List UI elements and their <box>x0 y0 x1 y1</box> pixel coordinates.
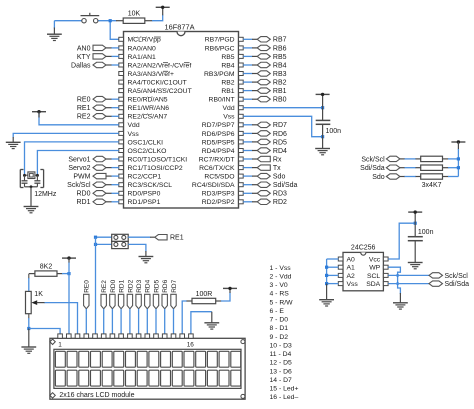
svg-text:AN0: AN0 <box>77 45 91 52</box>
svg-text:RC2/CCP1: RC2/CCP1 <box>128 174 162 181</box>
svg-text:10 - D3: 10 - D3 <box>270 343 293 350</box>
svg-text:RC4/SDI/SDA: RC4/SDI/SDA <box>192 182 235 189</box>
svg-text:RB2: RB2 <box>221 80 234 87</box>
svg-text:RB7/PGD: RB7/PGD <box>205 37 235 44</box>
svg-text:RD1: RD1 <box>76 199 90 206</box>
svg-text:RE1: RE1 <box>77 105 91 112</box>
svg-text:100n: 100n <box>326 128 342 135</box>
svg-text:13 - D6: 13 - D6 <box>270 368 293 375</box>
svg-text:Sck/Scl: Sck/Scl <box>67 182 91 189</box>
svg-text:RD3/PSP3: RD3/PSP3 <box>202 191 235 198</box>
svg-text:RA0/AN0: RA0/AN0 <box>128 45 157 52</box>
svg-text:Rx: Rx <box>273 156 282 163</box>
svg-text:RA4/T0CKI/C1OUT: RA4/T0CKI/C1OUT <box>128 80 187 87</box>
svg-text:RD1/PSP1: RD1/PSP1 <box>128 199 161 206</box>
svg-text:RD0: RD0 <box>76 191 90 198</box>
svg-text:8K2: 8K2 <box>40 264 53 271</box>
svg-text:RC0/T1OSO/T1CKI: RC0/T1OSO/T1CKI <box>128 156 188 163</box>
svg-text:RC6/TX/CK: RC6/TX/CK <box>199 165 235 172</box>
svg-text:RE0: RE0 <box>77 97 91 104</box>
svg-text:RC1/T1OSI/CCP2: RC1/T1OSI/CCP2 <box>128 165 183 172</box>
svg-text:A2: A2 <box>347 273 356 280</box>
svg-text:12 - D5: 12 - D5 <box>270 360 293 367</box>
svg-text:100R: 100R <box>196 291 213 298</box>
svg-text:RE2/CS/AN7: RE2/CS/AN7 <box>128 114 168 121</box>
svg-text:1: 1 <box>58 342 62 349</box>
svg-text:WP: WP <box>369 265 380 272</box>
svg-text:Sdi/Sda: Sdi/Sda <box>360 165 385 172</box>
svg-text:Sck/Scl: Sck/Scl <box>445 273 469 280</box>
svg-text:RE0: RE0 <box>84 280 91 293</box>
svg-text:RE1/WR/AN6: RE1/WR/AN6 <box>128 105 170 112</box>
svg-text:RE0/RD/AN5: RE0/RD/AN5 <box>128 97 168 104</box>
svg-text:Vdd: Vdd <box>128 122 140 129</box>
svg-text:RB5: RB5 <box>221 54 234 61</box>
svg-text:9 - D2: 9 - D2 <box>270 334 289 341</box>
svg-text:5 - R/W: 5 - R/W <box>270 299 294 306</box>
svg-text:RD6: RD6 <box>273 131 287 138</box>
svg-text:100n: 100n <box>418 229 434 236</box>
svg-text:RD0/PSP0: RD0/PSP0 <box>128 191 161 198</box>
svg-text:RD7: RD7 <box>273 122 287 129</box>
svg-text:RD4/PSP4: RD4/PSP4 <box>202 148 235 155</box>
svg-text:RA1/AN1: RA1/AN1 <box>128 54 157 61</box>
svg-text:RA2/AN2/Vref-/CVref: RA2/AN2/Vref-/CVref <box>128 62 192 69</box>
svg-text:RC7/RX/DT: RC7/RX/DT <box>199 156 235 163</box>
svg-text:RE2: RE2 <box>101 280 108 293</box>
svg-text:RB0/INT: RB0/INT <box>209 97 235 104</box>
svg-text:RD3: RD3 <box>136 279 143 292</box>
svg-text:Vcc: Vcc <box>369 256 381 263</box>
svg-text:RB1: RB1 <box>221 88 234 95</box>
svg-text:Sdo: Sdo <box>372 174 385 181</box>
svg-text:24C256: 24C256 <box>351 244 376 251</box>
svg-text:7 - D0: 7 - D0 <box>270 317 289 324</box>
svg-text:RD4: RD4 <box>145 279 152 292</box>
svg-text:SDA: SDA <box>366 281 380 288</box>
svg-text:RD6/PSP6: RD6/PSP6 <box>202 131 235 138</box>
svg-text:RC5/SDO: RC5/SDO <box>204 174 234 181</box>
svg-text:1K: 1K <box>34 291 43 298</box>
svg-text:2x16 chars LCD module: 2x16 chars LCD module <box>59 392 134 399</box>
svg-text:KTY: KTY <box>77 54 91 61</box>
svg-text:RD6: RD6 <box>162 279 169 292</box>
svg-text:10K: 10K <box>128 10 141 17</box>
svg-text:A1: A1 <box>347 265 356 272</box>
svg-text:RD7: RD7 <box>171 279 178 292</box>
svg-text:RB6: RB6 <box>273 45 287 52</box>
svg-text:Sck/Scl: Sck/Scl <box>361 156 385 163</box>
svg-text:RD5/PSP5: RD5/PSP5 <box>202 139 235 146</box>
svg-text:RD2: RD2 <box>127 279 134 292</box>
svg-text:RB4: RB4 <box>221 62 234 69</box>
svg-text:12MHz: 12MHz <box>34 191 57 198</box>
svg-text:Dallas: Dallas <box>71 62 91 69</box>
svg-text:Vdd: Vdd <box>223 105 235 112</box>
svg-text:RB7: RB7 <box>273 37 287 44</box>
svg-text:Servo2: Servo2 <box>68 165 90 172</box>
svg-text:14 - D7: 14 - D7 <box>270 377 293 384</box>
svg-text:Sdi/Sda: Sdi/Sda <box>445 281 470 288</box>
svg-text:4 - RS: 4 - RS <box>270 291 290 298</box>
svg-text:RD2: RD2 <box>273 199 287 206</box>
svg-text:Vss: Vss <box>223 114 235 121</box>
svg-text:Servo1: Servo1 <box>68 156 90 163</box>
svg-text:15 - Led+: 15 - Led+ <box>270 386 299 393</box>
svg-text:16F877A: 16F877A <box>165 23 195 32</box>
svg-text:Sdo: Sdo <box>273 174 286 181</box>
svg-text:RB3: RB3 <box>273 71 287 78</box>
svg-text:6 - E: 6 - E <box>270 308 285 315</box>
svg-text:RA5/AN4/SS/C2OUT: RA5/AN4/SS/C2OUT <box>128 88 192 95</box>
svg-text:RD5: RD5 <box>153 279 160 292</box>
svg-text:RD0: RD0 <box>110 279 117 292</box>
svg-text:Vss: Vss <box>347 281 359 288</box>
svg-text:RB4: RB4 <box>273 62 287 69</box>
svg-text:RD2/PSP2: RD2/PSP2 <box>202 199 235 206</box>
svg-text:RB5: RB5 <box>273 54 287 61</box>
svg-text:1 - Vss: 1 - Vss <box>270 265 292 272</box>
svg-text:RB2: RB2 <box>273 80 287 87</box>
svg-text:11 - D4: 11 - D4 <box>270 351 292 358</box>
svg-text:3 - V0: 3 - V0 <box>270 282 288 289</box>
svg-text:RD5: RD5 <box>273 139 287 146</box>
svg-text:RC3/SCK/SCL: RC3/SCK/SCL <box>128 182 173 189</box>
svg-text:16 - Led–: 16 - Led– <box>270 394 299 401</box>
svg-text:3x4K7: 3x4K7 <box>422 182 442 189</box>
svg-text:Tx: Tx <box>273 165 281 172</box>
svg-text:RB6/PGC: RB6/PGC <box>205 45 235 52</box>
svg-text:RE2: RE2 <box>77 114 91 121</box>
svg-text:Vss: Vss <box>128 131 140 138</box>
svg-text:Sdi/Sda: Sdi/Sda <box>273 182 298 189</box>
svg-text:SCL: SCL <box>367 273 380 280</box>
svg-text:OSC1/CLKI: OSC1/CLKI <box>128 139 164 146</box>
svg-text:16: 16 <box>187 342 195 349</box>
svg-text:PWM: PWM <box>73 174 90 181</box>
svg-text:RA3/AN3/Vref+: RA3/AN3/Vref+ <box>128 71 174 78</box>
svg-text:MCLR/Vpp: MCLR/Vpp <box>128 37 161 44</box>
svg-text:A0: A0 <box>347 256 356 263</box>
svg-text:RB3/PGM: RB3/PGM <box>204 71 235 78</box>
svg-text:2 - Vdd: 2 - Vdd <box>270 273 292 280</box>
svg-text:RD7/PSP7: RD7/PSP7 <box>202 122 235 129</box>
svg-text:RE1: RE1 <box>170 235 184 242</box>
svg-text:RD4: RD4 <box>273 148 287 155</box>
svg-text:RB1: RB1 <box>273 88 287 95</box>
svg-text:RD1: RD1 <box>119 279 126 292</box>
svg-text:RB0: RB0 <box>273 97 287 104</box>
svg-text:OSC2/CLKO: OSC2/CLKO <box>128 148 167 155</box>
svg-text:RD3: RD3 <box>273 191 287 198</box>
svg-text:8 - D1: 8 - D1 <box>270 325 289 332</box>
